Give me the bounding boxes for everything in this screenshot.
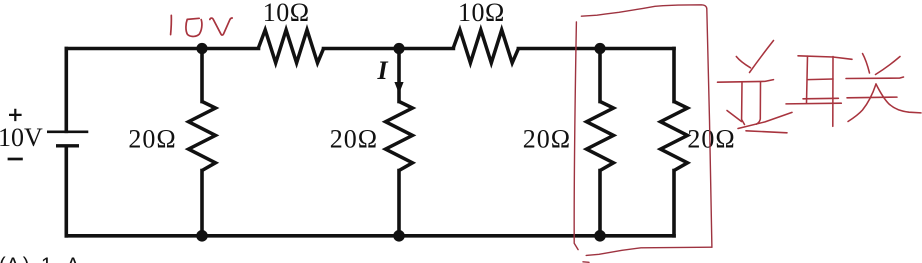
wire left vertical bottom (source to bottom wire) [65, 147, 69, 236]
svg-text:A: A [66, 254, 80, 263]
red hanzi LIAN right part left-falling stroke [848, 84, 876, 122]
svg-text:10Ω: 10Ω [263, 0, 310, 27]
wire top horizontal left segment [66, 47, 258, 51]
wire top horizontal middle segment [324, 47, 454, 51]
red hanzi BING short flat stroke [746, 131, 787, 133]
resistor R3 zigzag 20ohm first branch [189, 102, 216, 171]
red hanzi LIAN right part horizontal 2 [847, 96, 897, 99]
red hanzi LIAN ear left vertical [807, 56, 808, 103]
red enclosure box right edge [707, 9, 712, 247]
red hanzi BING left vertical [742, 83, 745, 125]
svg-text:20Ω: 20Ω [687, 125, 735, 154]
red hanzi BING small diagonal [727, 111, 742, 122]
resistor R4 zigzag 20ohm second branch [386, 102, 413, 171]
wire stub node B to resistor R4 (current I branch) [397, 49, 401, 102]
node B top junction dot [393, 43, 404, 54]
red enclosure box left edge [574, 22, 578, 250]
red hanzi BING right vertical with hook [756, 82, 760, 124]
voltage source V1 short plate [56, 144, 79, 147]
node E bottom junction dot [393, 230, 405, 242]
red enclosure box top edge [581, 5, 706, 16]
red stray mark below box [583, 261, 589, 263]
red enclosure box bottom edge [586, 247, 712, 255]
svg-text:10V: 10V [0, 123, 43, 152]
wire left vertical top (source to top wire) [65, 49, 69, 132]
wire stub node A to resistor R3 [200, 49, 204, 102]
red hanzi BING rising bottom stroke [738, 112, 792, 128]
red hanzi LIAN right part left dot [863, 54, 870, 74]
red hanzi LIAN ear top horizontal [798, 56, 852, 60]
svg-text:1: 1 [41, 254, 52, 263]
wire stub node C to resistor R5 [598, 49, 602, 102]
resistor R6 zigzag 20ohm fourth branch [661, 102, 688, 171]
label answer (A) 1 A [0, 254, 80, 263]
red handwritten annotation 10V letter V [210, 18, 232, 35]
red hanzi LIAN ear right vertical [832, 57, 834, 127]
red hanzi LIAN right part right-falling stroke [876, 84, 921, 113]
node F bottom junction dot [594, 230, 606, 242]
red hanzi LIAN ear inner horizontal 2 [803, 97, 838, 100]
svg-text:(: ( [0, 254, 6, 263]
red hanzi BING right dot stroke [750, 41, 774, 73]
node D bottom junction dot [196, 230, 208, 242]
svg-text:20Ω: 20Ω [330, 125, 378, 154]
red handwritten annotation 10V digit 1 [170, 15, 173, 34]
red hanzi LIAN ear bottom horizontal [786, 102, 841, 105]
wire right vertical bottom stub [672, 171, 676, 236]
resistor R5 zigzag 20ohm third branch [587, 102, 614, 171]
red hanzi BING horizontal stroke [718, 80, 774, 83]
resistor R1 zigzag 10ohm top-left [258, 30, 323, 63]
wire stub resistor R4 to bottom [397, 171, 401, 236]
voltage source V1 long plate [47, 131, 88, 134]
svg-text:A: A [6, 254, 20, 263]
label minus polarity [8, 158, 23, 161]
wire stub resistor R5 to bottom [598, 171, 602, 236]
label plus polarity [9, 109, 22, 121]
resistor R2 zigzag 10ohm top-right [453, 30, 518, 63]
wire right vertical top stub [672, 49, 676, 102]
red hanzi LIAN ear inner horizontal 1 [808, 78, 833, 81]
node C top junction dot [594, 43, 605, 54]
svg-text:20Ω: 20Ω [128, 125, 176, 154]
red hanzi BING left dot stroke [736, 57, 750, 68]
wire stub resistor R3 to bottom [200, 171, 204, 236]
wire top horizontal right segment [518, 47, 674, 51]
node A top junction dot [196, 43, 207, 54]
red hanzi LIAN right part horizontal 1 [846, 77, 904, 79]
svg-text:20Ω: 20Ω [523, 125, 571, 154]
red handwritten annotation 10V digit 0 [186, 18, 202, 36]
wire bottom horizontal [66, 234, 674, 238]
current arrow I head [394, 82, 403, 94]
svg-text:I: I [377, 56, 389, 85]
red hanzi LIAN right part right dot [876, 57, 901, 75]
svg-text:): ) [23, 254, 30, 263]
svg-text:10Ω: 10Ω [458, 0, 505, 27]
